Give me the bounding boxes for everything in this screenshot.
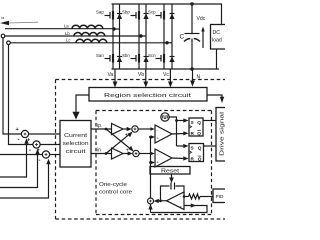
buffer U1	[112, 124, 124, 135]
junction: minus input node	[183, 195, 186, 198]
summer SA	[132, 126, 138, 132]
wire: clock branch to FF1 S	[177, 120, 185, 122]
svg-text:control core: control core	[99, 190, 132, 196]
arrow: Vdc measure	[201, 27, 204, 49]
svg-text:-: -	[29, 148, 31, 154]
transistor Sbp	[131, 4, 140, 36]
label FF2 pins	[191, 146, 202, 162]
wire: leg3 midpoint stub	[164, 42, 172, 44]
svg-text:+: +	[125, 132, 128, 137]
summer S2	[33, 141, 40, 148]
wire: DC load bottom to rail	[216, 49, 218, 69]
junction: clock branch	[175, 119, 178, 122]
arrow: ramp into comp1	[151, 135, 155, 138]
inner dashed box: one-cycle control core	[96, 111, 212, 215]
Current selection circuit box	[60, 121, 91, 168]
arrow: into SB	[128, 151, 133, 155]
svg-text:Scn: Scn	[148, 53, 156, 58]
junction: ramp to comp1	[149, 136, 152, 139]
Reset box	[150, 167, 190, 175]
svg-text:Lb: Lb	[65, 31, 70, 36]
svg-text:Scp: Scp	[148, 10, 156, 15]
summer S3	[42, 151, 49, 158]
wire: phase a line	[5, 28, 113, 30]
arrow: diag into SA	[127, 132, 132, 138]
wire: core summer bottom	[150, 204, 152, 213]
wire: phase b sense drop	[3, 38, 21, 134]
transistor Sap	[105, 4, 114, 29]
arrow: Vc sense	[168, 69, 173, 88]
summer S4 internal mark	[149, 200, 152, 203]
arrow: into current selection box	[72, 112, 79, 120]
svg-text:Q: Q	[197, 131, 201, 136]
wire: op-amp plus input path	[151, 206, 208, 213]
summer S1	[21, 130, 28, 137]
svg-text:C: C	[180, 34, 185, 41]
comparator U4	[155, 149, 172, 167]
summer S1 internal mark	[24, 133, 27, 136]
arrow: into FF1 S	[183, 118, 188, 122]
arrow: into FF1 R	[183, 131, 188, 135]
svg-text:in: in	[97, 148, 101, 154]
svg-text:+: +	[126, 147, 129, 152]
wire: clock branch to FF2 S	[177, 145, 185, 147]
svg-text:circuit: circuit	[66, 149, 87, 155]
outer dashed control boundary	[56, 80, 226, 220]
svg-text:S: S	[191, 146, 194, 151]
arrow: ramp into comp2	[151, 161, 155, 164]
summer SA internal mark	[134, 128, 137, 131]
wire: SA to comparator 1	[138, 128, 152, 130]
wire: S2 output	[40, 144, 60, 146]
svg-text:Region selection circuit: Region selection circuit	[104, 93, 192, 99]
arrow: into S3	[46, 159, 50, 165]
wire: in line	[91, 153, 112, 155]
transistor Scp	[156, 4, 165, 43]
junction: phase c node	[165, 41, 168, 44]
inductor La	[72, 25, 103, 28]
transistor Sbn	[131, 36, 140, 69]
svg-text:One-cycle: One-cycle	[99, 182, 127, 188]
junction: phase b node	[139, 34, 142, 37]
junction: cap bottom / N node	[190, 67, 193, 70]
wire: S2 feedback	[0, 153, 38, 188]
capacitor C2 (integrator)	[171, 183, 175, 190]
svg-text:Va: Va	[108, 72, 114, 78]
junction: in tap	[105, 152, 108, 155]
arrow: diag into SB	[128, 146, 133, 152]
svg-text:Q: Q	[197, 120, 201, 125]
wire: summer3 left input	[0, 154, 42, 156]
wire: clock to flip-flop sets	[169, 117, 176, 146]
wire: SB to comparator 2	[139, 153, 152, 155]
transistor Scn	[156, 43, 165, 69]
wire: FF1 Q to drive	[203, 120, 216, 122]
wire: region box to drive box	[207, 95, 222, 97]
svg-text:-: -	[18, 138, 20, 144]
arrow: into S1	[24, 138, 28, 144]
svg-text:San: San	[96, 53, 104, 58]
diode D5	[143, 36, 148, 69]
arrow: up into core summer	[148, 204, 152, 210]
svg-text:Vc: Vc	[163, 72, 169, 78]
arrow: into S2	[35, 149, 39, 155]
svg-text:Vdc: Vdc	[197, 16, 206, 22]
diode D6	[169, 43, 174, 69]
flip-flop FF2	[189, 144, 204, 162]
svg-text:Sbp: Sbp	[122, 10, 130, 15]
DC load box	[211, 25, 228, 50]
svg-text:Q: Q	[198, 156, 202, 161]
svg-text:Current: Current	[64, 133, 88, 139]
buffer U2	[112, 148, 124, 159]
op-amp U5 integrator	[167, 192, 185, 210]
svg-text:S: S	[191, 120, 194, 125]
summer SB	[133, 150, 139, 156]
wire: integrator ramp to comparators	[150, 137, 152, 198]
svg-text:DC: DC	[213, 30, 221, 36]
svg-text:selection: selection	[63, 141, 89, 147]
Region selection circuit box	[89, 88, 207, 102]
summer S3 internal mark	[45, 153, 48, 156]
svg-text:+: +	[27, 137, 31, 143]
wire: DC bus negative rail	[112, 68, 220, 70]
arrow: Vb sense	[143, 69, 148, 88]
Drive signal box	[216, 108, 227, 162]
wire: phase c line	[10, 42, 164, 44]
diode D1	[117, 4, 122, 29]
diode D2	[143, 4, 148, 36]
svg-text:R: R	[191, 156, 195, 161]
svg-text:Sbn: Sbn	[122, 53, 130, 58]
wire: comp1 out to FF1 R	[172, 133, 184, 136]
junction: ip tap	[105, 128, 108, 131]
svg-text:La: La	[64, 24, 69, 29]
svg-text:+: +	[37, 147, 41, 153]
arrow: on plus input path	[191, 203, 196, 207]
inductor Lb	[74, 33, 105, 36]
integrator feedback loop	[161, 186, 185, 201]
arrow: into comp2	[150, 152, 154, 156]
junction: output feedback tap	[159, 199, 162, 202]
junction: cap top	[190, 2, 193, 5]
diode D3	[169, 4, 174, 43]
arrow: Va sense	[113, 69, 118, 88]
arrow: into core summer	[154, 199, 159, 203]
svg-text:Vb: Vb	[138, 72, 144, 78]
label One-cycle control core	[99, 182, 132, 196]
svg-text:ia: ia	[2, 16, 5, 20]
arrow: into comp1	[150, 127, 154, 131]
wire: ramp branch comp2	[151, 162, 153, 164]
wire: FF2 Q to drive	[204, 145, 217, 147]
resistor R1	[184, 194, 213, 199]
svg-text:N: N	[197, 75, 201, 81]
terminal: phase b	[1, 34, 5, 38]
wire: phase a current arrow	[0, 21, 38, 26]
arrow: into SA	[127, 127, 132, 131]
inductor Lc	[76, 39, 107, 42]
summer S2 internal mark	[35, 143, 38, 146]
label Current selection circuit	[63, 133, 89, 155]
capacitor C	[184, 4, 200, 69]
label DC load	[212, 30, 222, 44]
arrow: reset to integrator	[169, 174, 174, 183]
wire: DC bus positive rail	[112, 3, 223, 5]
svg-text:R: R	[191, 131, 195, 136]
arrow: into drive signal box	[220, 97, 224, 103]
junction: phase a node	[112, 27, 115, 30]
PID box	[213, 189, 226, 203]
svg-text:Drive signal: Drive signal	[220, 112, 226, 156]
summer SB internal mark	[135, 152, 138, 155]
arrow: into FF2 R	[183, 156, 188, 160]
comparator U3	[155, 125, 172, 143]
svg-text:Q: Q	[198, 146, 202, 151]
flip-flop FF1	[189, 118, 203, 136]
arrow: N sense	[190, 69, 195, 87]
wire: S1 feedback	[0, 142, 27, 177]
arrow: into FF2 S	[183, 144, 188, 148]
diode D4	[117, 29, 122, 69]
wire: leg2 midpoint stub	[139, 35, 146, 37]
svg-text:load: load	[212, 38, 222, 44]
wire: phase c sense drop	[9, 45, 33, 145]
svg-text:ip: ip	[97, 123, 101, 129]
wire: cross diagonal in to SA	[106, 132, 132, 153]
wire: comp2 out to FF2 R	[172, 157, 184, 160]
wire: phase b line	[5, 35, 139, 37]
label FF1 pins	[191, 120, 202, 136]
wire: ramp branch comp1	[151, 136, 153, 138]
svg-text:Reset: Reset	[161, 169, 180, 175]
junction: ramp to comp2	[149, 161, 152, 164]
wire: S3 feedback	[0, 163, 49, 199]
transistor San	[105, 29, 114, 69]
wire: op-amp output to core summer	[156, 200, 167, 202]
wire: buffer1 to SA	[123, 128, 128, 130]
wire: buffer2 to SB	[123, 153, 129, 155]
svg-text:Sap: Sap	[96, 10, 104, 15]
wire: cross diagonal ip to SB	[106, 129, 133, 151]
svg-text:Lc: Lc	[66, 38, 70, 43]
wire: rail to DC load top	[221, 4, 223, 25]
svg-text:PID: PID	[216, 194, 224, 199]
svg-text:-: -	[39, 158, 41, 164]
wire: leg1 midpoint stub	[113, 28, 120, 30]
wire: S1 output	[29, 133, 60, 135]
wire: S3 output	[50, 154, 60, 156]
clock oscillator	[161, 113, 169, 121]
svg-text:+: +	[16, 127, 20, 133]
summer S4 (core)	[148, 198, 154, 204]
wire: region box to current selection	[76, 95, 89, 113]
wire: ip line	[91, 128, 112, 130]
terminal: phase c	[7, 41, 11, 45]
